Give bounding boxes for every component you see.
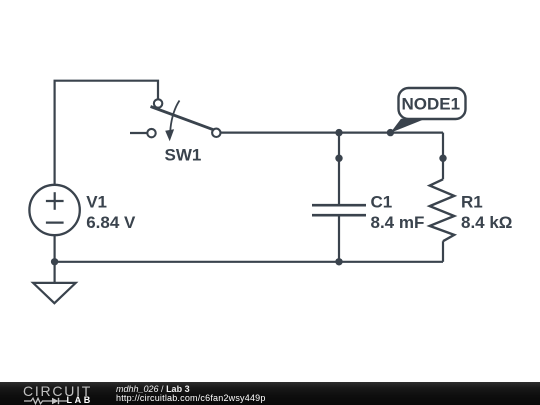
svg-text:C1: C1 (371, 192, 393, 211)
svg-text:SW1: SW1 (165, 146, 202, 165)
svg-text:6.84 V: 6.84 V (86, 213, 136, 232)
svg-text:8.4 mF: 8.4 mF (371, 213, 425, 232)
svg-text:8.4 kΩ: 8.4 kΩ (461, 213, 512, 232)
svg-text:V1: V1 (86, 192, 107, 211)
svg-text:NODE1: NODE1 (402, 95, 461, 114)
svg-text:R1: R1 (461, 192, 483, 211)
